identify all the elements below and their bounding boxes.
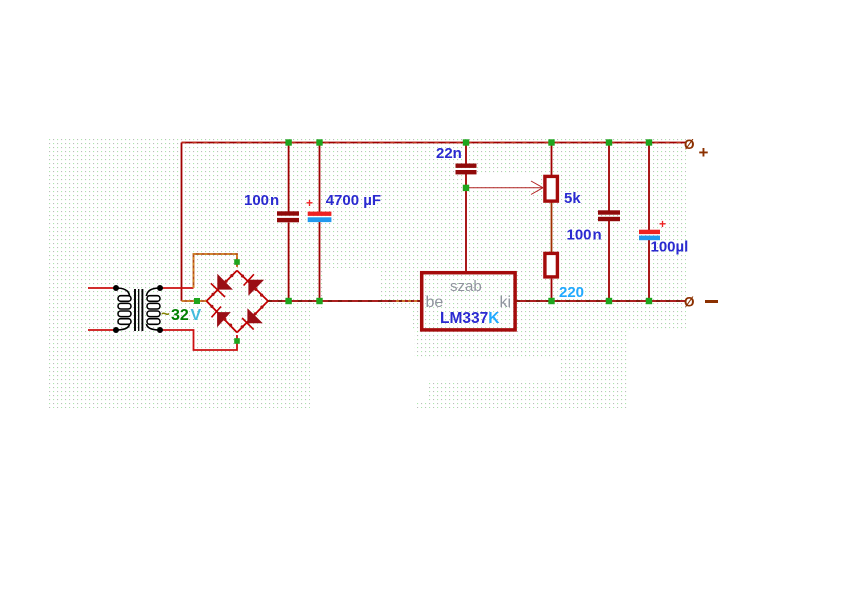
svg-text:V: V xyxy=(191,307,202,324)
white patch above wiper arrow xyxy=(468,175,540,186)
potentiometer R1 5k leads xyxy=(551,143,553,176)
capacitor C1 100n plates xyxy=(277,211,299,215)
junction R1 top xyxy=(548,139,554,145)
capacitor C5 100u leads xyxy=(648,143,650,231)
wire bottom bus xyxy=(268,300,421,302)
svg-text:Ø: Ø xyxy=(684,295,695,310)
grid bottom-middle area xyxy=(428,380,629,408)
svg-text:32: 32 xyxy=(171,307,189,324)
capacitor C2 4700uF plates xyxy=(308,212,332,216)
pin square bridge bottom xyxy=(234,338,240,344)
svg-text:be: be xyxy=(426,294,444,311)
svg-text:LM337K: LM337K xyxy=(440,310,500,327)
grid below regulator strip xyxy=(414,330,629,358)
capacitor C4 100n leads xyxy=(608,143,610,212)
junction square szab node xyxy=(463,185,469,191)
regulator U1 LM337K box xyxy=(422,273,515,330)
wire secondary bottom loop to bridge bottom xyxy=(160,330,237,350)
wire orange to bridge top xyxy=(194,254,238,288)
svg-text:220: 220 xyxy=(559,284,584,301)
white patch left of regulator xyxy=(310,308,412,330)
junction C3 top xyxy=(463,139,469,145)
wire orange tint near be pin xyxy=(396,300,420,302)
capacitor C3 22n leads xyxy=(465,143,467,165)
grid right join strip xyxy=(560,358,629,380)
white patch right of bridge xyxy=(324,268,379,308)
diode bridge edges xyxy=(207,271,269,333)
wire secondary top lead xyxy=(160,287,194,289)
resistor R2 220 body xyxy=(545,253,558,277)
svg-text:+: + xyxy=(659,217,666,231)
capacitor C1 100n lead xyxy=(288,143,290,213)
junction C2 top xyxy=(316,139,322,145)
capacitor C4 100n plates xyxy=(598,210,620,214)
junction C2 bottom xyxy=(316,298,322,304)
junction C5 top xyxy=(646,139,652,145)
diode D1 top-left xyxy=(211,274,233,297)
svg-text:22n: 22n xyxy=(436,145,462,162)
grid main area xyxy=(49,138,686,330)
wire left vertical from top bus to bridge left xyxy=(181,143,183,302)
junction C4 bottom xyxy=(606,298,612,304)
grid bottom-middle row xyxy=(416,403,428,408)
secondary coil loops xyxy=(147,296,160,325)
capacitor C5 100u plates xyxy=(639,230,660,234)
svg-text:100n: 100n xyxy=(567,227,602,244)
diode pin dots xyxy=(210,274,263,328)
junction C4 top xyxy=(606,139,612,145)
svg-text:+: + xyxy=(699,143,709,162)
svg-text:+: + xyxy=(306,196,313,210)
wire top bus xyxy=(182,142,687,144)
primary coil loops xyxy=(118,296,131,325)
capacitor C2 4700uF leads xyxy=(319,143,321,213)
potentiometer R1 5k body xyxy=(545,176,558,201)
svg-text:Ø: Ø xyxy=(684,137,695,152)
grid bottom-left area xyxy=(49,330,310,408)
svg-text:ki: ki xyxy=(500,294,512,311)
terminal dots xyxy=(113,285,119,291)
capacitor C3 22n plates xyxy=(456,164,477,168)
pin square bridge top xyxy=(234,259,240,265)
resistor R2 220 leads xyxy=(551,279,553,301)
transformer TR1 xyxy=(113,285,163,333)
core lines xyxy=(134,289,136,331)
svg-text:5k: 5k xyxy=(564,190,581,207)
svg-text:100µl: 100µl xyxy=(651,239,689,256)
svg-text:~: ~ xyxy=(161,306,170,323)
secondary hooks xyxy=(147,288,161,296)
wire to bridge left vertex xyxy=(182,300,208,302)
wire arrow to potentiometer wiper xyxy=(466,187,543,189)
diode D3 bottom-left xyxy=(212,307,231,328)
diode D2 top-right xyxy=(244,274,265,296)
primary hooks xyxy=(116,288,130,296)
junction R2 bottom xyxy=(548,298,554,304)
junction C1 bottom xyxy=(285,298,291,304)
diode D4 bottom-right xyxy=(242,308,263,329)
svg-text:100n: 100n xyxy=(244,192,279,209)
junction square bridge left xyxy=(194,298,200,304)
wire transformer primary stub top xyxy=(88,287,114,289)
svg-text:szab: szab xyxy=(450,278,482,295)
junction C1 top xyxy=(285,139,291,145)
junction C5 bottom xyxy=(646,298,652,304)
svg-text:4700 µF: 4700 µF xyxy=(326,192,381,209)
wire transformer primary stub bottom xyxy=(88,329,114,331)
